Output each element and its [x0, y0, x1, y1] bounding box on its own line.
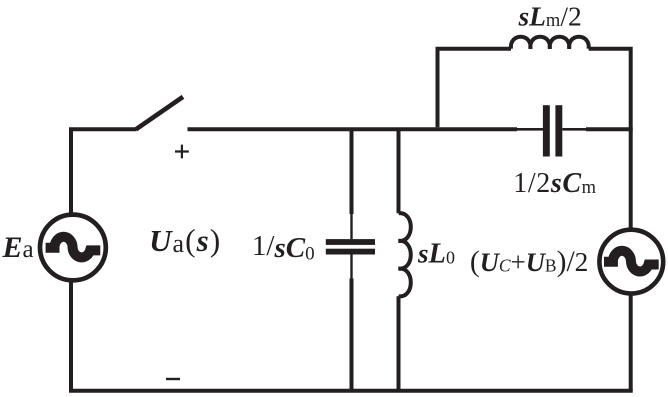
wire: main horizontal from C_m to top-right node — [586, 127, 633, 131]
AC source E_a (circle) — [40, 215, 106, 281]
label 1/2sC_m — [513, 168, 596, 199]
svg-text:Ea: Ea — [2, 231, 34, 264]
wire: top-left corner (horizontal to switch + left vertical down to source E_a) — [71, 129, 137, 213]
inductor L_0 (3 bumps, bulge right) — [399, 213, 411, 296]
wire: right vertical below right source — [629, 294, 633, 391]
wire: capacitor C_0 branch lower wire — [350, 279, 354, 391]
inductor L_m/2 (4 bumps) — [511, 37, 589, 49]
capacitor C_0 lower thin lead — [350, 254, 352, 279]
capacitor C_0 branch: upper wire — [350, 129, 354, 214]
label (U_C+U_B)/2 — [470, 246, 588, 278]
label 1/sC_0 — [252, 230, 315, 264]
wire: left vertical below source E_a — [69, 282, 73, 391]
wire: inductor L_0 branch lower wire — [397, 296, 401, 391]
wire: main top horizontal from switch to C_m left lead — [188, 127, 518, 131]
capacitor C_0 upper thin lead — [350, 213, 352, 239]
wire: up branch from node to L_m block (vertical + top horizontal) — [438, 49, 512, 128]
capacitor C_m right thin lead — [562, 128, 586, 131]
plus sign — [175, 145, 189, 159]
capacitor C_m left thin lead — [517, 128, 543, 131]
capacitor C_0 plates (1/sC_0) — [326, 239, 375, 254]
AC source (U_C+U_B)/2 sine symbol — [604, 251, 659, 272]
inductor L_0 branch: upper wire — [397, 129, 401, 213]
label sL_m/2 — [518, 0, 582, 31]
svg-text:Ua(s): Ua(s) — [149, 223, 221, 258]
AC source (U_C+U_B)/2 (circle) — [599, 230, 663, 294]
wire: from L_m right end to top-right corner — [589, 49, 631, 130]
AC source E_a sine symbol — [46, 237, 101, 258]
label sL_0 — [417, 239, 455, 270]
switch blade — [136, 97, 183, 130]
capacitor C_m plates (1/2sC_m) — [543, 105, 562, 156]
label U_a(s) — [149, 223, 221, 258]
label E_a — [2, 231, 34, 264]
minus sign — [166, 378, 180, 380]
svg-text:(UC+UB)/2: (UC+UB)/2 — [470, 246, 588, 278]
wire: right vertical above right source — [629, 129, 633, 229]
wire: bottom horizontal — [69, 389, 633, 393]
